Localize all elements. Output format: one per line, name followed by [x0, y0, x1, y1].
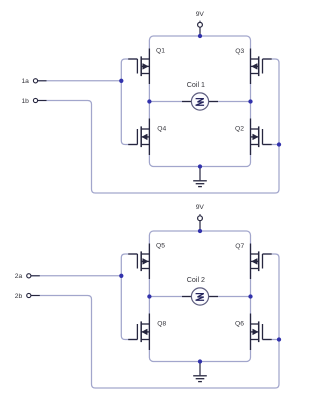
coil Coil 1 [182, 93, 218, 110]
wire middle rail [149, 101, 250, 103]
node 9V rail junction [198, 229, 202, 233]
node 9V rail junction [198, 34, 202, 38]
input terminal 1a [33, 79, 46, 83]
node left mid rail junction [147, 99, 151, 103]
svg-text:Q7: Q7 [235, 243, 244, 250]
wire input 2b routed to right gate bus [31, 254, 279, 388]
svg-text:2b: 2b [15, 293, 23, 300]
battery 9V supply terminal [198, 214, 203, 231]
node 2b gate-bus junction [277, 337, 281, 341]
node right mid rail junction [248, 99, 252, 103]
transistor Q3 [251, 49, 272, 85]
svg-text:9V: 9V [196, 204, 205, 211]
svg-text:Q4: Q4 [157, 126, 166, 133]
wire input 1b routed to right gate bus [38, 59, 279, 193]
node 2a gate-bus junction [119, 274, 123, 278]
svg-text:Q8: Q8 [157, 321, 166, 328]
transistor Q2 [251, 119, 272, 156]
wire Q6 gate to bus [263, 339, 280, 341]
svg-text:Coil 2: Coil 2 [187, 276, 205, 284]
wire H-bridge frame [149, 36, 250, 167]
wire Q2 gate to bus [263, 144, 280, 146]
wire left gate bus (Q1/Q4 gates) [121, 59, 137, 145]
svg-text:Q6: Q6 [235, 321, 244, 328]
wire input 2a to gate bus [31, 275, 121, 277]
ground [193, 362, 207, 382]
node 1b gate-bus junction [277, 142, 281, 146]
svg-text:Q5: Q5 [156, 243, 165, 250]
svg-text:1b: 1b [21, 98, 29, 105]
coil Coil 2 [182, 288, 218, 305]
transistor Q5 [128, 244, 149, 280]
node right mid rail junction [248, 294, 252, 298]
wire input 1a to gate bus [38, 80, 122, 82]
node left mid rail junction [147, 294, 151, 298]
svg-text:9V: 9V [196, 11, 205, 18]
transistor Q7 [251, 244, 272, 280]
transistor Q8 [128, 314, 149, 351]
node 1a gate-bus junction [119, 79, 123, 83]
wire left gate bus (Q5/Q8 gates) [121, 254, 137, 340]
wire H-bridge frame [149, 231, 250, 362]
input terminal 1b [33, 98, 46, 102]
wire middle rail [149, 296, 250, 298]
svg-text:2a: 2a [15, 273, 23, 280]
svg-text:Q2: Q2 [235, 126, 244, 133]
transistor Q6 [251, 314, 272, 351]
svg-text:Coil 1: Coil 1 [187, 81, 205, 89]
battery 9V supply terminal [198, 21, 203, 36]
svg-text:1a: 1a [21, 78, 29, 85]
node ground rail junction [198, 164, 202, 168]
node ground rail junction [198, 359, 202, 363]
svg-text:Q1: Q1 [156, 48, 165, 55]
transistor Q4 [128, 119, 149, 156]
ground [193, 167, 207, 187]
svg-text:Q3: Q3 [235, 48, 244, 55]
input terminal 2a [27, 274, 40, 278]
transistor Q1 [128, 49, 149, 85]
input terminal 2b [27, 293, 40, 297]
